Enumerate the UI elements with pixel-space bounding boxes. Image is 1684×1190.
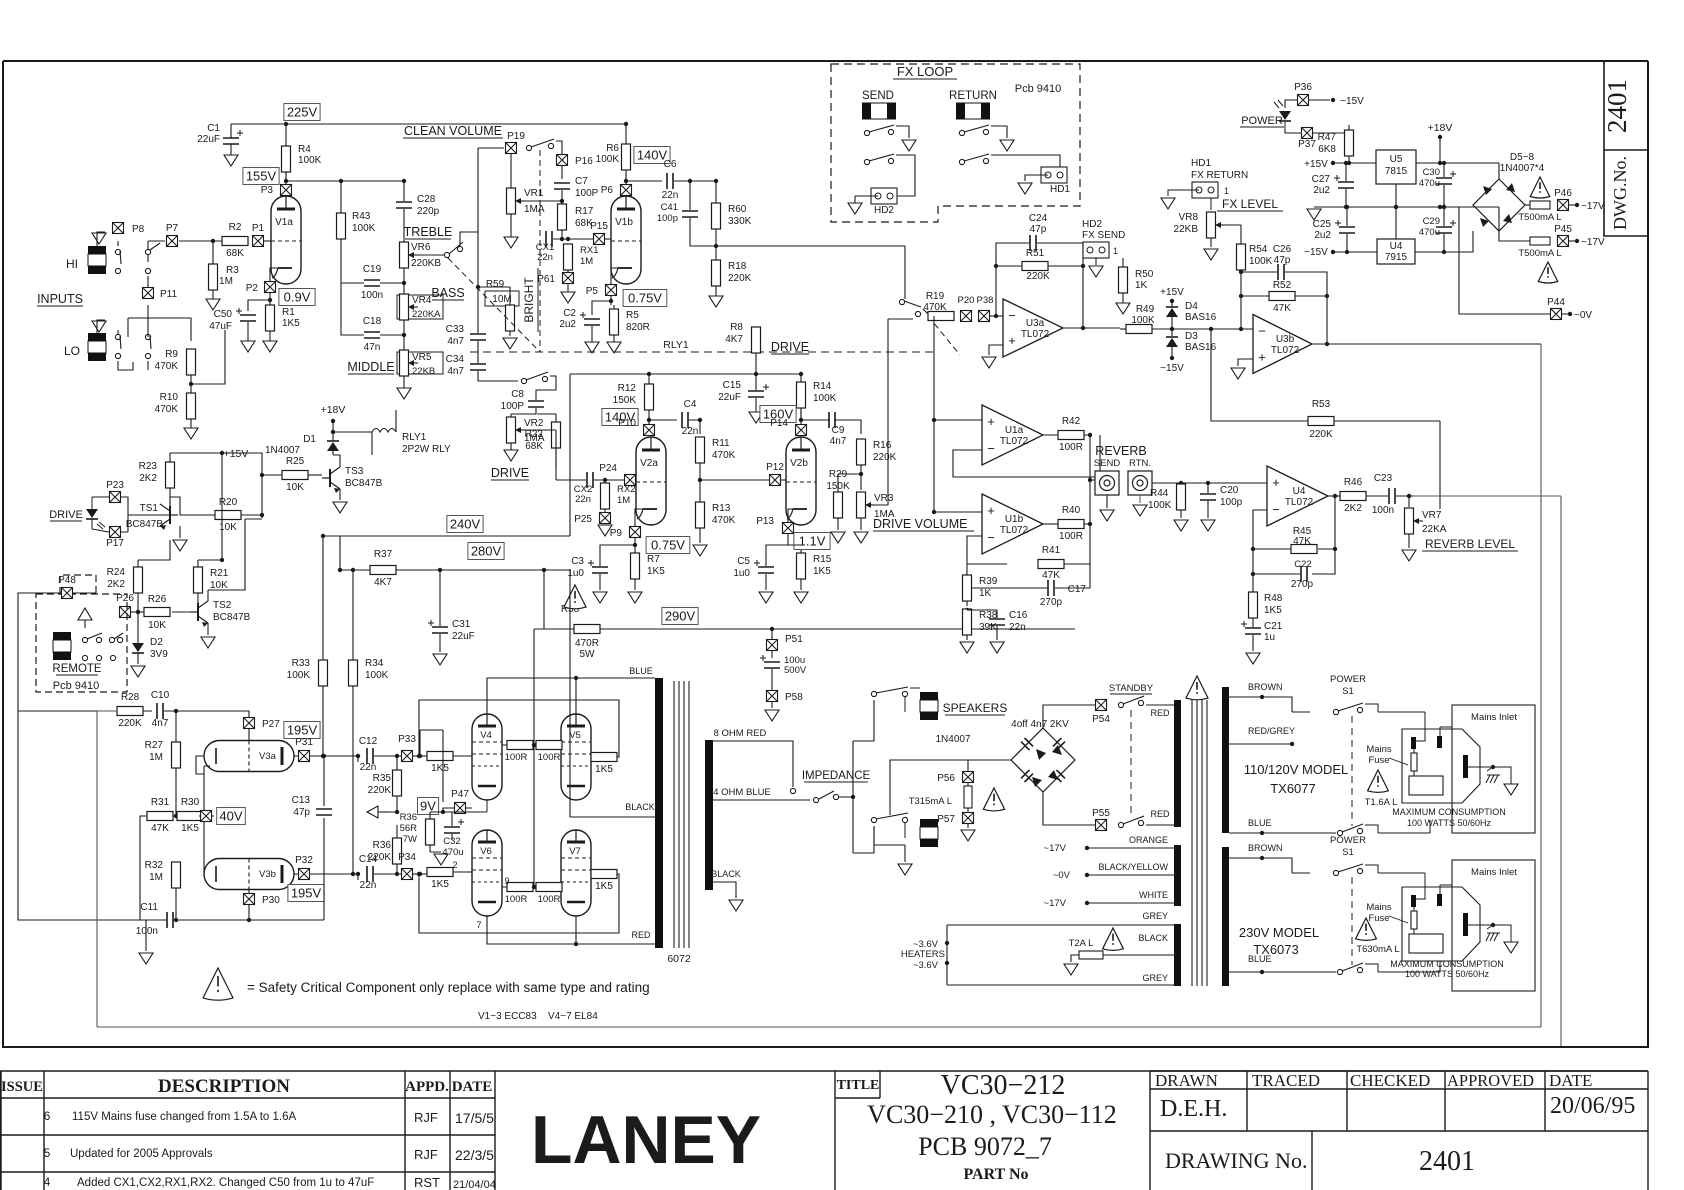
- remote contacts lower: [82, 655, 87, 660]
- testpoint P38: [979, 311, 990, 322]
- svg-text:C9: C9: [832, 425, 845, 436]
- resistor R24: [134, 567, 143, 593]
- wire blue 2: [1229, 971, 1336, 973]
- wire CX2 in: [556, 479, 625, 481]
- wire R23-TS1: [169, 453, 171, 506]
- svg-text:−: −: [1008, 308, 1016, 323]
- svg-text:V3a: V3a: [259, 751, 277, 762]
- wire P1 to V1a grid: [264, 240, 271, 242]
- wire R11-R13: [699, 463, 701, 502]
- pentode V7: [561, 830, 591, 916]
- svg-text:R35: R35: [373, 773, 392, 784]
- svg-text:REMOTE: REMOTE: [52, 663, 102, 675]
- wire D4-D3: [1171, 301, 1173, 336]
- svg-text:BAS16: BAS16: [1185, 312, 1217, 323]
- wire red upper: [1146, 704, 1174, 706]
- svg-text:R39: R39: [979, 576, 998, 587]
- wire V1b anode to C6: [626, 174, 662, 181]
- svg-text:C5: C5: [737, 556, 750, 567]
- svg-text:220K: 220K: [1309, 429, 1333, 440]
- testpoint P31: [299, 751, 310, 762]
- wire 290V up: [543, 570, 545, 629]
- wire R27: [175, 711, 177, 816]
- wire P45 out: [1569, 240, 1577, 242]
- svg-text:C41: C41: [661, 202, 678, 213]
- svg-text:4n7: 4n7: [152, 718, 169, 729]
- svg-text:100 WATTS 50/60Hz: 100 WATTS 50/60Hz: [1405, 969, 1490, 979]
- wire P34-1K5: [413, 873, 427, 875]
- mains tx laminations: [1192, 700, 1207, 986]
- resistor R9: [187, 349, 196, 375]
- wire C4-R11: [689, 420, 700, 434]
- wire R22: [537, 414, 556, 468]
- voltage label 160V drive: [760, 406, 796, 423]
- svg-text:R41: R41: [1042, 545, 1061, 556]
- svg-text:C25: C25: [1313, 219, 1332, 230]
- wire U3b plus gnd: [1238, 359, 1253, 366]
- svg-text:+15V: +15V: [1304, 159, 1328, 170]
- wire V2a cathode: [635, 509, 643, 553]
- svg-text:P10: P10: [618, 418, 636, 429]
- svg-text:9: 9: [504, 876, 509, 886]
- wire R9-R10: [190, 375, 192, 428]
- voltage label 290V: [662, 608, 698, 625]
- mains tx heater bar: [1174, 924, 1181, 986]
- wire C2 gnd: [591, 326, 593, 342]
- ground R13: [693, 545, 707, 556]
- svg-text:100p: 100p: [1220, 497, 1243, 508]
- wire +15V rail: [170, 453, 262, 518]
- wire C30: [1443, 163, 1445, 207]
- svg-text:DRAWN: DRAWN: [1155, 1071, 1218, 1090]
- svg-text:R36: R36: [400, 812, 417, 823]
- wire R12: [648, 374, 650, 424]
- svg-text:T315mA L: T315mA L: [909, 796, 952, 807]
- svg-text:PCB 9072_7: PCB 9072_7: [918, 1132, 1052, 1161]
- warning big speakers: [1186, 676, 1208, 700]
- svg-text:230V MODEL: 230V MODEL: [1239, 925, 1319, 940]
- mains inlet 1 box: [1452, 705, 1535, 833]
- svg-text:D2: D2: [150, 637, 163, 648]
- voltage label 280V: [468, 543, 504, 560]
- approval table frame: [1150, 1071, 1648, 1190]
- svg-text:~3.6V: ~3.6V: [913, 960, 939, 971]
- speaker switch upper: [871, 691, 876, 696]
- svg-text:V6: V6: [480, 846, 492, 857]
- svg-text:10M: 10M: [492, 294, 511, 305]
- testpoint P48: [62, 588, 73, 599]
- svg-text:Mains Inlet: Mains Inlet: [1471, 712, 1517, 723]
- svg-text:POWER: POWER: [1330, 835, 1366, 846]
- switch contacts mid: [145, 249, 150, 254]
- testpoint P44: [1551, 309, 1562, 320]
- svg-text:100K: 100K: [1148, 500, 1172, 511]
- opamp U1a: [982, 405, 1043, 465]
- wire anodes top blue: [487, 678, 655, 714]
- wire 240V rail: [323, 535, 570, 537]
- svg-text:IMPEDANCE: IMPEDANCE: [802, 770, 871, 782]
- svg-text:Added CX1,CX2,RX1,RX2. Chang: Added CX1,CX2,RX1,RX2. Changed C50 from …: [77, 1177, 374, 1189]
- capacitor C31: [432, 627, 448, 633]
- testpoint P6: [621, 185, 632, 196]
- svg-text:470u: 470u: [1419, 227, 1440, 238]
- svg-text:C34: C34: [446, 354, 465, 365]
- svg-text:270p: 270p: [1291, 579, 1314, 590]
- label 9V box: [418, 798, 439, 815]
- svg-text:R32: R32: [145, 860, 164, 871]
- svg-text:RJF: RJF: [414, 1147, 438, 1162]
- wire P58 gnd: [771, 702, 773, 708]
- svg-text:R27: R27: [145, 740, 164, 751]
- ground R36C32: [434, 854, 448, 865]
- wire V2b cathode: [788, 509, 801, 553]
- wire bridge bottom: [1043, 792, 1095, 825]
- testpoint P9: [630, 527, 641, 538]
- mains inlet 2 outline: [1402, 887, 1480, 961]
- zener D2: [132, 643, 144, 652]
- resistor R26: [144, 608, 170, 617]
- inlet 1 earth gnd: [1504, 784, 1518, 795]
- wire C100u-P58: [771, 669, 773, 690]
- ground U3a: [982, 357, 996, 368]
- svg-text:P37: P37: [1298, 139, 1316, 150]
- wire U1b plus: [934, 511, 982, 513]
- wire C1: [230, 124, 232, 155]
- voltage label 195V b: [288, 885, 324, 902]
- testpoint P45: [1558, 236, 1569, 247]
- ground C21: [1246, 653, 1260, 664]
- svg-text:7915: 7915: [1385, 252, 1408, 263]
- svg-text:P11: P11: [160, 289, 177, 300]
- svg-text:TRACED: TRACED: [1252, 1071, 1320, 1090]
- svg-text:R30: R30: [181, 797, 200, 808]
- standby switch upper: [1118, 702, 1123, 707]
- resistor R44: [1177, 484, 1186, 510]
- wire P36-P37: [1285, 100, 1297, 108]
- svg-text:R24: R24: [107, 567, 126, 578]
- LO switch contacts: [115, 334, 120, 339]
- svg-text:~0V: ~0V: [1053, 870, 1071, 881]
- testpoint P30: [244, 894, 255, 905]
- resistor R59: [506, 305, 515, 331]
- dashed relay zone: [470, 351, 934, 353]
- diode D4: [1166, 308, 1178, 317]
- wire LO to R9: [118, 305, 148, 370]
- capacitor CX2: [587, 472, 593, 488]
- svg-text:PART No: PART No: [963, 1166, 1028, 1183]
- svg-text:47K: 47K: [1293, 536, 1311, 547]
- wire TS3 net: [262, 474, 282, 476]
- svg-text:RTN.: RTN.: [1129, 458, 1151, 469]
- voltage label 1.1V: [794, 533, 830, 550]
- svg-text:1N4007*4: 1N4007*4: [1500, 163, 1545, 174]
- wire C20 gnd: [1207, 483, 1209, 518]
- drive LED: [86, 509, 98, 518]
- screen resistors 100R bot: [507, 883, 533, 892]
- svg-text:R13: R13: [712, 503, 731, 514]
- svg-text:DRAWING No.: DRAWING No.: [1165, 1148, 1307, 1173]
- tx6077 primary bar: [1222, 687, 1229, 833]
- potentiometer VR4: [400, 294, 409, 320]
- resistor R16: [857, 439, 866, 465]
- wire HI jack to switch: [97, 232, 118, 246]
- wire TS1 emitter gnd: [179, 526, 181, 538]
- ground R38: [960, 642, 974, 653]
- ground LO: [92, 321, 106, 332]
- svg-text:47uF: 47uF: [209, 321, 232, 332]
- svg-text:R48: R48: [1264, 593, 1283, 604]
- wire V1a anode node: [286, 172, 404, 181]
- svg-text:Pcb 9410: Pcb 9410: [53, 680, 99, 692]
- svg-text:+: +: [1272, 475, 1280, 490]
- wire C14-P34: [374, 873, 401, 875]
- capacitor C25: [1339, 227, 1355, 233]
- svg-text:VR6: VR6: [411, 242, 431, 253]
- FX loop dashed box: [831, 64, 1080, 222]
- svg-text:470K: 470K: [712, 515, 736, 526]
- wire speaker gnd: [874, 826, 905, 862]
- wire VR6-VR4: [403, 268, 405, 295]
- svg-text:R52: R52: [1273, 280, 1292, 291]
- resistor 1K5 v6: [427, 868, 453, 877]
- wire V3b anode: [294, 873, 358, 875]
- svg-text:7815: 7815: [1385, 166, 1408, 177]
- svg-text:BLACK: BLACK: [711, 869, 741, 879]
- grid resistors 1K5 right: [591, 753, 617, 762]
- svg-text:P45: P45: [1554, 224, 1572, 235]
- capacitor C6: [667, 173, 673, 189]
- transistor TS1: [169, 506, 171, 524]
- wire C5: [766, 545, 801, 590]
- svg-text:110/120V MODEL: 110/120V MODEL: [1244, 762, 1349, 777]
- svg-text:4off 4n7 2KV: 4off 4n7 2KV: [1011, 719, 1069, 730]
- svg-text:FX LEVEL: FX LEVEL: [1222, 197, 1278, 211]
- svg-text:TL072: TL072: [1285, 497, 1314, 508]
- svg-text:RX1: RX1: [580, 245, 598, 256]
- opamp U3b: [1253, 315, 1312, 374]
- send switch 1: [864, 130, 869, 135]
- wire TS2 collector up: [208, 519, 262, 601]
- svg-text:RX2: RX2: [617, 484, 635, 495]
- svg-text:TS3: TS3: [345, 466, 364, 477]
- wire U3a out to R49: [1120, 328, 1126, 330]
- ground P57: [961, 830, 975, 841]
- wire HD2 gnd: [855, 196, 878, 203]
- testpoint P16: [557, 155, 568, 166]
- warning T500 1: [1530, 177, 1550, 198]
- resistor R21: [194, 567, 203, 593]
- capacitor C32: [444, 827, 460, 833]
- svg-text:U4: U4: [1293, 486, 1306, 497]
- svg-text:P46: P46: [1554, 188, 1572, 199]
- wire rtn gnd: [1139, 495, 1141, 503]
- svg-text:D5−8: D5−8: [1510, 152, 1535, 163]
- testpoint P3: [281, 185, 292, 196]
- wire U4 minus: [1253, 510, 1267, 592]
- ground R3: [206, 299, 220, 310]
- ground VR5: [397, 388, 411, 399]
- svg-text:P36: P36: [1294, 82, 1312, 93]
- power switch 1b: [1337, 830, 1342, 835]
- svg-text:2401: 2401: [1419, 1146, 1475, 1177]
- warning triangle legend: [203, 968, 233, 1000]
- svg-text:470K: 470K: [923, 302, 947, 313]
- inlet 2 pins: [1411, 895, 1416, 907]
- svg-text:LANEY: LANEY: [531, 1102, 761, 1178]
- svg-text:+15V: +15V: [224, 448, 249, 460]
- resistor R19: [928, 312, 954, 321]
- ground C1: [224, 155, 238, 166]
- capacitor C4: [682, 412, 688, 428]
- svg-text:21/04/04: 21/04/04: [453, 1179, 496, 1190]
- wire bridge top to standby: [1043, 705, 1095, 728]
- svg-text:BLUE: BLUE: [629, 666, 653, 676]
- voltage label 40V: [217, 808, 246, 825]
- capacitor C22: [1301, 566, 1307, 582]
- testpoint P5: [606, 285, 617, 296]
- svg-text:C8: C8: [511, 389, 524, 400]
- wire P33-1K5: [413, 755, 427, 757]
- svg-text:R19: R19: [926, 291, 945, 302]
- svg-text:TREBLE: TREBLE: [404, 225, 453, 239]
- triode V2a: [636, 437, 666, 525]
- svg-text:220K: 220K: [873, 452, 897, 463]
- wire R40 to node: [1084, 480, 1090, 524]
- svg-text:220K: 220K: [118, 718, 142, 729]
- svg-text:MAXIMUM CONSUMPTION: MAXIMUM CONSUMPTION: [1392, 807, 1506, 817]
- wire U1b minus fb: [967, 536, 1025, 588]
- DWG number box: [1604, 61, 1648, 236]
- svg-text:VR4: VR4: [412, 295, 432, 306]
- svg-text:WHITE: WHITE: [1139, 890, 1168, 900]
- svg-text:470K: 470K: [712, 450, 736, 461]
- svg-text:+18V: +18V: [321, 404, 346, 416]
- resistor R58: [574, 625, 600, 634]
- pentode V5: [561, 714, 591, 800]
- svg-text:22n: 22n: [1009, 622, 1026, 633]
- warning inlet 1: [1368, 770, 1389, 792]
- wire R21: [198, 492, 222, 604]
- ground HD1: [1018, 183, 1032, 194]
- connector HD2: [871, 188, 897, 204]
- capacitor C13: [316, 809, 332, 815]
- wire C6 to R60: [674, 181, 716, 203]
- svg-text:47p: 47p: [1274, 255, 1291, 266]
- svg-text:HD2: HD2: [874, 205, 894, 216]
- wire ~17V b: [1087, 902, 1174, 904]
- title block frame: [835, 1071, 1150, 1190]
- resistor R23: [166, 462, 175, 488]
- svg-text:VC30−212: VC30−212: [941, 1070, 1066, 1101]
- resistor R7: [631, 553, 640, 579]
- wire C11: [146, 920, 324, 951]
- potentiometer VR3: [857, 492, 866, 518]
- wire C7-R17: [561, 190, 563, 204]
- testpoint P34: [402, 869, 413, 880]
- wire C31: [439, 570, 441, 652]
- svg-text:C2: C2: [563, 308, 576, 319]
- wire V3a anode: [294, 755, 358, 757]
- testpoint P47: [455, 803, 466, 814]
- ground VR8: [1204, 249, 1218, 260]
- resistor R32: [172, 862, 181, 888]
- resistor R35: [393, 770, 402, 796]
- svg-text:RED: RED: [631, 930, 651, 940]
- svg-text:P25: P25: [574, 514, 592, 525]
- svg-text:DRIVE: DRIVE: [49, 509, 83, 521]
- wire R53: [1211, 329, 1440, 509]
- connector HD2 FX SEND: [1083, 242, 1109, 258]
- testpoint P2: [265, 282, 276, 293]
- svg-text:R2: R2: [229, 222, 242, 233]
- svg-text:4n7: 4n7: [830, 436, 847, 447]
- svg-text:P48: P48: [58, 575, 76, 586]
- ground D2: [131, 666, 145, 677]
- wire R30-40V: [140, 816, 203, 920]
- screen resistors 100R top: [507, 741, 533, 750]
- svg-text:V1−3 ECC83: V1−3 ECC83: [478, 1011, 537, 1022]
- pentode V6: [472, 830, 502, 916]
- opt center tap: [570, 570, 655, 817]
- svg-text:22uF: 22uF: [718, 392, 741, 403]
- svg-text:5W: 5W: [580, 649, 596, 660]
- wire C19: [341, 282, 404, 284]
- svg-text:V5: V5: [569, 730, 581, 741]
- svg-text:1K5: 1K5: [595, 764, 613, 775]
- svg-text:C17: C17: [1068, 584, 1087, 595]
- fx select switch: [899, 299, 904, 304]
- resistor R40: [1058, 520, 1084, 529]
- wire R13 gnd: [699, 528, 701, 543]
- svg-text:BC847B: BC847B: [213, 612, 251, 623]
- arrow feed: [367, 806, 378, 818]
- capacitor C28: [396, 202, 412, 208]
- svg-text:T630mA L: T630mA L: [1356, 944, 1399, 955]
- svg-text:220KA: 220KA: [412, 309, 441, 320]
- svg-text:BASS: BASS: [431, 286, 464, 300]
- voltage label 140V: [634, 147, 670, 164]
- ground R1: [263, 341, 277, 352]
- svg-text:V2a: V2a: [640, 458, 658, 469]
- svg-text:8 OHM RED: 8 OHM RED: [714, 728, 767, 739]
- wire TS2 base: [172, 611, 190, 613]
- testpoint P7: [167, 236, 178, 247]
- svg-text:TX6077: TX6077: [1270, 781, 1316, 796]
- dashed link BRIGHT: [539, 150, 541, 352]
- svg-text:RLY1: RLY1: [402, 432, 427, 443]
- wire D1: [332, 425, 334, 455]
- wire 40V link: [212, 815, 214, 817]
- wire C21 gnd: [1252, 618, 1254, 651]
- svg-text:VR5: VR5: [412, 352, 432, 363]
- svg-text:P26: P26: [116, 593, 134, 604]
- triode V1a: [271, 196, 301, 284]
- voltage label 0.75V: [623, 290, 667, 307]
- wire V2b anode node: [801, 408, 830, 420]
- testpoint P25: [600, 513, 611, 524]
- svg-text:−15V: −15V: [1340, 96, 1364, 107]
- svg-text:P1: P1: [252, 223, 265, 234]
- svg-text:1K: 1K: [1135, 280, 1148, 291]
- opt laminations: [674, 681, 689, 948]
- svg-text:ISSUE: ISSUE: [1, 1079, 43, 1095]
- HI jack switch contacts: [115, 249, 120, 254]
- ground R15: [794, 592, 808, 603]
- testpoint P36: [1298, 95, 1309, 106]
- svg-text:240V: 240V: [450, 517, 481, 532]
- capacitor C23: [1389, 488, 1395, 504]
- wire HD2fs gnd: [1095, 258, 1097, 265]
